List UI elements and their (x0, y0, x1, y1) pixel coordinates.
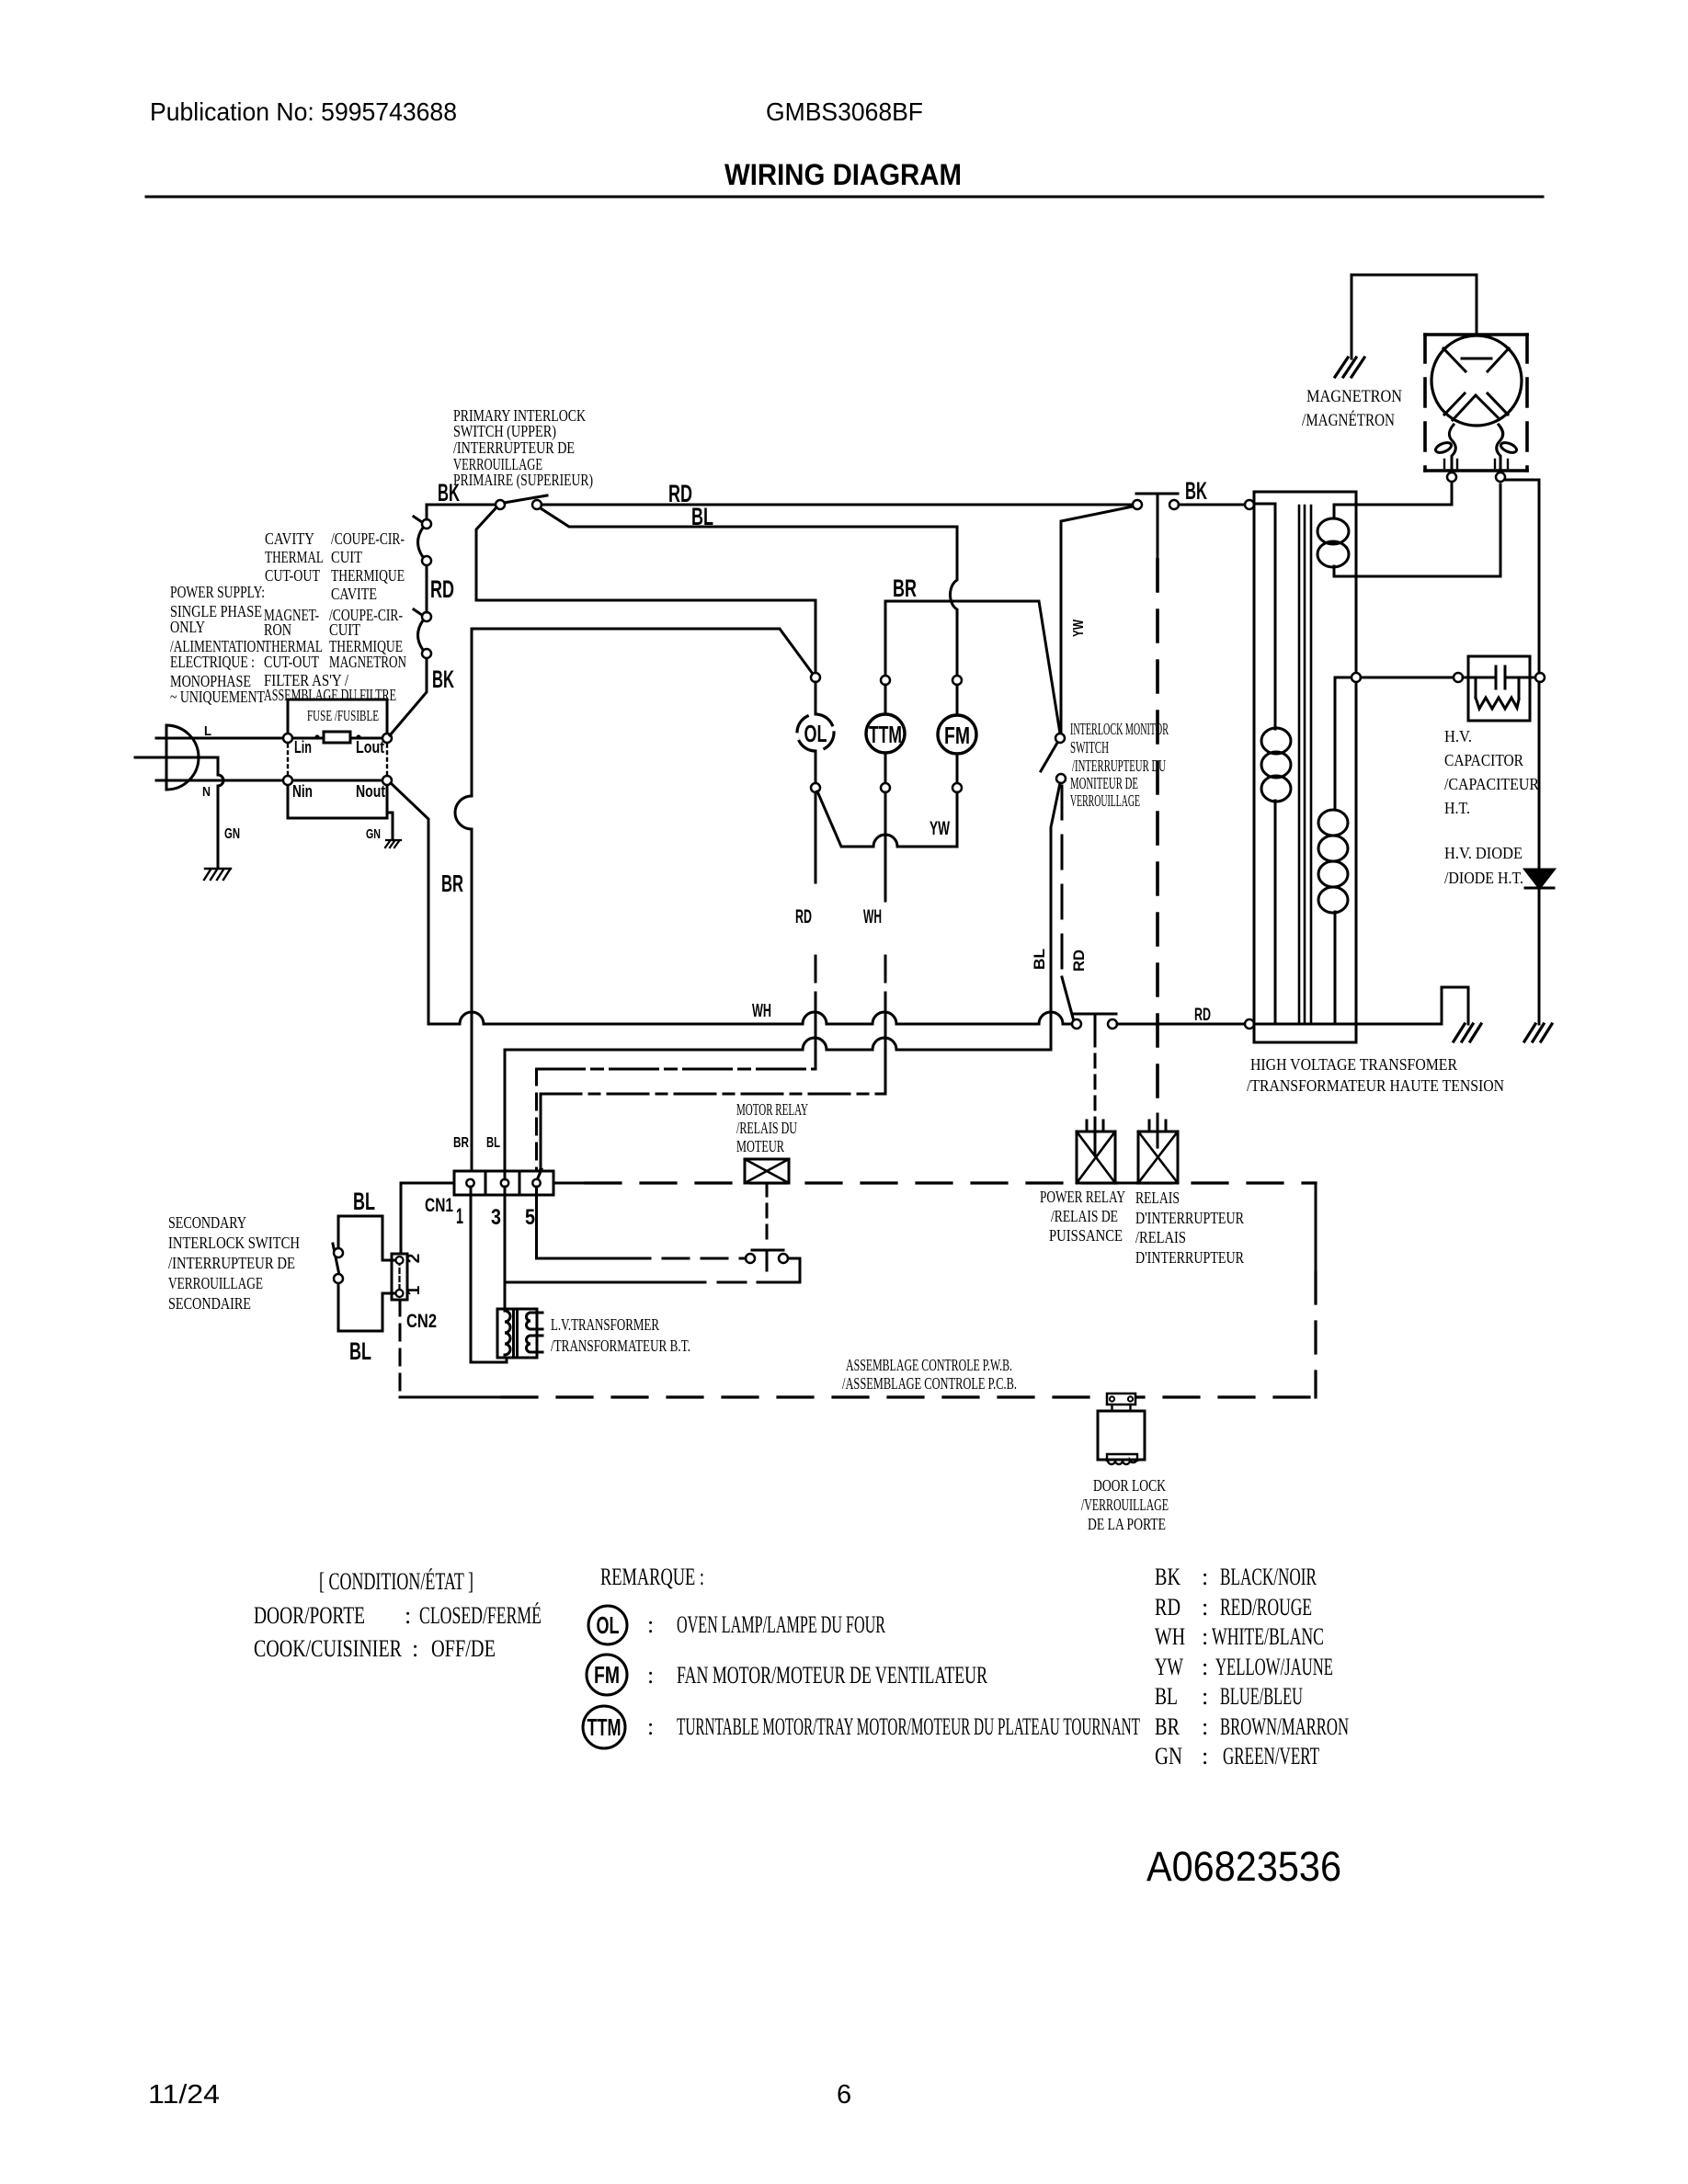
svg-text:WH: WH (1155, 1623, 1185, 1650)
door lock connector (1107, 1393, 1135, 1405)
svg-text:MONITEUR DE: MONITEUR DE (1070, 774, 1138, 792)
LV transformer secondary (527, 1313, 543, 1329)
magnetron filament terminal left (1447, 472, 1456, 482)
CN1 pin 1 (466, 1179, 473, 1187)
svg-text:A06823536: A06823536 (1146, 1843, 1341, 1890)
svg-text:2: 2 (405, 1254, 424, 1264)
svg-text:BL: BL (1155, 1683, 1178, 1710)
svg-text:/INTERRUPTEUR DE: /INTERRUPTEUR DE (453, 438, 575, 457)
svg-text:RON: RON (264, 620, 291, 639)
HV transformer filament winding (1333, 505, 1336, 518)
PWB left edge dashed (399, 1300, 402, 1397)
svg-text:[ CONDITION/ÉTAT ]: [ CONDITION/ÉTAT ] (319, 1568, 473, 1595)
svg-text:POWER SUPPLY:: POWER SUPPLY: (170, 583, 265, 601)
wire BL to relay switch (505, 1258, 800, 1282)
junction filament/cap (1352, 673, 1361, 682)
contact RD (1133, 500, 1142, 509)
wire between cutouts (426, 565, 428, 612)
svg-text:RD: RD (1070, 950, 1088, 972)
ground filter GN (385, 840, 401, 847)
dotted link Lout-Nout (386, 745, 388, 775)
mech link motor relay (766, 1183, 769, 1243)
svg-text:INTERLOCK SWITCH: INTERLOCK SWITCH (168, 1234, 300, 1252)
wire HV diode (1505, 480, 1539, 1024)
svg-text:/TRANSFORMATEUR HAUTE TENSION: /TRANSFORMATEUR HAUTE TENSION (1247, 1076, 1504, 1095)
wire TTM drop (884, 601, 887, 675)
HV capacitor bleeder resistor (1476, 677, 1519, 709)
svg-text:GREEN/VERT: GREEN/VERT (1223, 1743, 1319, 1769)
svg-text:H.V.: H.V. (1444, 727, 1472, 745)
svg-text:BK: BK (1155, 1564, 1180, 1590)
svg-text:VERROUILLAGE: VERROUILLAGE (168, 1274, 263, 1292)
terminal Lin (283, 734, 292, 743)
svg-text::: : (405, 1602, 411, 1629)
svg-text:ASSEMBLAGE CONTROLE P.W.B.: ASSEMBLAGE CONTROLE P.W.B. (846, 1356, 1012, 1374)
ground magnetron (1335, 358, 1364, 377)
svg-text:SECONDAIRE: SECONDAIRE (168, 1294, 251, 1313)
svg-text::: : (1202, 1683, 1208, 1710)
svg-text:/DIODE H.T.: /DIODE H.T. (1444, 869, 1523, 887)
svg-text:GN: GN (366, 826, 381, 842)
wire BL lower run (505, 1049, 1051, 1052)
svg-text:ONLY: ONLY (170, 618, 205, 636)
svg-text::: : (1202, 1564, 1208, 1590)
svg-text:VERROUILLAGE: VERROUILLAGE (1070, 791, 1140, 810)
LV transformer box (497, 1309, 537, 1358)
svg-text::: : (647, 1611, 654, 1638)
svg-text:CAVITE: CAVITE (331, 585, 377, 603)
interrupter relay coil (1138, 1132, 1178, 1183)
wire magnetron anode/ground (1352, 275, 1477, 358)
svg-text:BLUE/BLEU: BLUE/BLEU (1220, 1683, 1303, 1710)
svg-text:D'INTERRUPTEUR: D'INTERRUPTEUR (1135, 1248, 1244, 1267)
wire RD below OL (815, 792, 817, 1069)
svg-text:GMBS3068BF: GMBS3068BF (766, 97, 923, 126)
HV transformer internal RD bus (1254, 1023, 1356, 1026)
svg-text:BL: BL (349, 1337, 371, 1365)
svg-text:BK: BK (438, 479, 460, 506)
svg-text:5: 5 (525, 1205, 535, 1230)
mech link A (537, 1068, 816, 1071)
svg-text:FAN MOTOR/MOTEUR DE VENTILATEU: FAN MOTOR/MOTEUR DE VENTILATEUR (677, 1662, 987, 1689)
wire filament winding to left terminal (1334, 504, 1452, 506)
svg-text:/RELAIS: /RELAIS (1135, 1228, 1186, 1246)
svg-text:CUT-OUT: CUT-OUT (264, 653, 319, 671)
svg-text:DOOR LOCK: DOOR LOCK (1093, 1476, 1166, 1495)
svg-text:GN: GN (224, 826, 240, 842)
svg-text:SWITCH: SWITCH (1070, 738, 1109, 756)
power plug (166, 725, 199, 790)
svg-text:/ASSEMBLAGE CONTROLE P.C.B.: /ASSEMBLAGE CONTROLE P.C.B. (842, 1374, 1017, 1393)
svg-text:TURNTABLE MOTOR/TRAY MOTOR/MOT: TURNTABLE MOTOR/TRAY MOTOR/MOTEUR DU PLA… (677, 1713, 1140, 1740)
svg-text:WH: WH (752, 1001, 771, 1021)
wire RD to oven lamp (476, 507, 815, 672)
wire cavity top to OL (472, 629, 813, 674)
svg-text::: : (1202, 1743, 1208, 1769)
svg-text:CAPACITOR: CAPACITOR (1444, 751, 1523, 769)
HV transformer secondary winding (1335, 677, 1356, 810)
svg-text:YELLOW/JAUNE: YELLOW/JAUNE (1215, 1654, 1333, 1680)
cavity thermal cut-out (418, 528, 424, 557)
PWB top edge left (401, 1183, 454, 1254)
svg-text:BR: BR (893, 574, 917, 602)
HV transformer core (1299, 506, 1311, 1023)
svg-text:FUSE /FUSIBLE: FUSE /FUSIBLE (307, 707, 379, 724)
svg-text:L.V.TRANSFORMER: L.V.TRANSFORMER (551, 1315, 659, 1334)
svg-text:RD: RD (1155, 1594, 1180, 1621)
fan motor FM (952, 676, 962, 685)
svg-text:CN2: CN2 (406, 1311, 437, 1332)
CN1 pin 3 (501, 1179, 508, 1187)
svg-text:CN1: CN1 (425, 1195, 453, 1216)
magnetron thermal cut-out (418, 620, 424, 650)
svg-text:MOTEUR: MOTEUR (736, 1137, 784, 1155)
wire BR from Nout (391, 783, 428, 1024)
svg-text:BROWN/MARRON: BROWN/MARRON (1220, 1713, 1349, 1740)
svg-text:ELECTRIQUE :: ELECTRIQUE : (170, 653, 255, 671)
PWB right edge (1315, 1183, 1317, 1272)
wire BR pin1 to LV transformer (471, 1187, 507, 1362)
wire BK Lout to cutouts (390, 657, 427, 735)
svg-text:RELAIS: RELAIS (1135, 1189, 1180, 1207)
wire Nin-Nout (288, 779, 387, 782)
svg-text:3: 3 (491, 1205, 501, 1230)
wire filament winding to right terminal (1334, 484, 1500, 576)
svg-text:HIGH VOLTAGE TRANSFOMER: HIGH VOLTAGE TRANSFOMER (1250, 1055, 1457, 1074)
door lock body (1098, 1411, 1145, 1460)
monitor switch blade (1041, 743, 1057, 771)
wire junction to capacitor (1361, 677, 1454, 679)
svg-text:WHITE/BLANC: WHITE/BLANC (1212, 1623, 1324, 1650)
turntable motor TTM (881, 676, 890, 685)
svg-text:BR: BR (1155, 1713, 1180, 1740)
LV transformer primary coil (505, 1311, 510, 1355)
svg-text:OVEN LAMP/LAMPE DU FOUR: OVEN LAMP/LAMPE DU FOUR (677, 1611, 885, 1638)
title rule (146, 196, 1543, 199)
wire RD top run (542, 504, 1133, 506)
svg-text:~ UNIQUEMENT: ~ UNIQUEMENT (170, 688, 265, 706)
magnetron electrodes (1443, 348, 1509, 420)
svg-text:DOOR/PORTE: DOOR/PORTE (254, 1602, 365, 1629)
wire BK to transformer (1179, 504, 1245, 506)
CN1 pin5 blade (537, 1169, 542, 1180)
svg-text:BR: BR (441, 870, 463, 897)
svg-text:YW: YW (1155, 1654, 1183, 1680)
svg-text:Nout: Nout (356, 782, 385, 801)
wire WH below TTM (884, 792, 887, 1094)
magnetron filament lead left (1449, 425, 1455, 472)
wire N (156, 779, 285, 782)
svg-text:RD: RD (1194, 1006, 1211, 1025)
svg-text:COOK/CUISINIER: COOK/CUISINIER (254, 1635, 403, 1662)
monitor switch contact top (1055, 734, 1065, 743)
secondary interlock switch (338, 1216, 395, 1331)
svg-text:/INTERRUPTEUR DU: /INTERRUPTEUR DU (1072, 756, 1166, 775)
svg-text:OFF/DE: OFF/DE (431, 1635, 496, 1662)
HV capacitor box (1468, 656, 1530, 721)
svg-text:MAGNETRON: MAGNETRON (329, 653, 406, 671)
HV capacitor terminal left (1454, 673, 1463, 682)
svg-text:RD: RD (795, 906, 812, 927)
HV transformer frame (1254, 492, 1356, 1042)
power relay coil (1077, 1132, 1115, 1183)
terminal Nout (382, 776, 392, 785)
svg-text:1: 1 (456, 1204, 463, 1229)
CN2 pin 1 (396, 1290, 404, 1297)
svg-text:YW: YW (1071, 619, 1087, 637)
svg-text:N: N (202, 784, 211, 800)
svg-text:MAGNETRON: MAGNETRON (1306, 387, 1402, 406)
svg-text:WIRING DIAGRAM: WIRING DIAGRAM (724, 158, 962, 191)
svg-text:RED/ROUGE: RED/ROUGE (1220, 1594, 1312, 1621)
PWB top edge right (553, 1182, 1138, 1185)
monitor switch T contact (1136, 494, 1178, 560)
svg-text:RD: RD (430, 575, 454, 603)
svg-text:CAVITY: CAVITY (265, 529, 314, 548)
svg-text::: : (647, 1713, 654, 1740)
mech link power relay (1094, 1033, 1097, 1121)
svg-text:/RELAIS DU: /RELAIS DU (736, 1119, 797, 1137)
svg-text:BL: BL (1031, 949, 1048, 970)
svg-text:REMARQUE :: REMARQUE : (600, 1564, 704, 1590)
legend TTM (583, 1706, 625, 1748)
svg-text:BR: BR (453, 1135, 469, 1151)
wire BL monitor down (1051, 783, 1060, 1050)
wire L (156, 737, 285, 740)
svg-text::: : (1202, 1594, 1208, 1621)
mech link B (541, 1093, 885, 1096)
wire BR horizontal (885, 601, 1060, 734)
svg-text:Publication No: 5995743688: Publication No: 5995743688 (150, 97, 457, 126)
svg-text:DE LA PORTE: DE LA PORTE (1088, 1515, 1166, 1533)
svg-text:PRIMAIRE (SUPERIEUR): PRIMAIRE (SUPERIEUR) (453, 471, 593, 490)
svg-text:MOTOR RELAY: MOTOR RELAY (736, 1100, 808, 1119)
svg-text:BL: BL (353, 1188, 375, 1215)
wire BK corner (427, 505, 496, 519)
svg-text:Lout: Lout (356, 738, 384, 756)
svg-text:BK: BK (432, 665, 454, 693)
svg-text::: : (412, 1635, 418, 1662)
wire RD dashed monitor (1061, 786, 1064, 977)
svg-text::: : (1202, 1654, 1208, 1680)
ground HV diode (1524, 1024, 1552, 1041)
terminal Nin (283, 776, 292, 785)
svg-text:/INTERRUPTEUR DE: /INTERRUPTEUR DE (168, 1254, 295, 1272)
wire BL drop jog (951, 527, 958, 675)
contact BK (1169, 500, 1179, 509)
svg-text:CUIT: CUIT (329, 620, 360, 639)
svg-text:WH: WH (863, 906, 882, 927)
wire GN hook (387, 813, 393, 839)
wire Lin-Lout (288, 737, 387, 740)
wire WH main run (428, 1023, 1072, 1026)
wire cavity left edge (455, 629, 472, 1179)
motor relay switch T (752, 1250, 783, 1270)
oven lamp OL (811, 673, 820, 682)
svg-text:RD: RD (668, 480, 692, 507)
HV diode (1525, 870, 1554, 888)
wire BL top run (541, 508, 957, 527)
svg-text:Nin: Nin (292, 782, 313, 801)
CN1 pin 5 (532, 1179, 540, 1187)
svg-text:L: L (204, 723, 211, 739)
HV capacitor element (1463, 666, 1535, 688)
svg-text:POWER RELAY: POWER RELAY (1040, 1188, 1125, 1206)
magnetron filament lead right (1497, 425, 1503, 472)
svg-text:FM: FM (594, 1661, 620, 1689)
svg-text:D'INTERRUPTEUR: D'INTERRUPTEUR (1135, 1209, 1244, 1227)
wire transformer ground (1356, 987, 1468, 1024)
svg-text:SECONDARY: SECONDARY (168, 1213, 246, 1232)
svg-text:CLOSED/FERMÉ: CLOSED/FERMÉ (419, 1602, 542, 1629)
svg-text:H.T.: H.T. (1444, 799, 1470, 817)
svg-text:H.V. DIODE: H.V. DIODE (1444, 844, 1523, 862)
svg-text:INTERLOCK MONITOR: INTERLOCK MONITOR (1070, 720, 1169, 738)
svg-text::: : (1202, 1623, 1208, 1650)
ground transformer (1454, 1024, 1481, 1041)
svg-text:11/24: 11/24 (148, 2080, 220, 2110)
svg-text:YW: YW (930, 818, 950, 839)
primary interlock switch (504, 495, 547, 503)
door lock coil (1107, 1454, 1137, 1464)
connector CN1 (454, 1171, 553, 1195)
svg-text:ASSEMBLAGE DU FILTRE: ASSEMBLAGE DU FILTRE (264, 686, 396, 704)
motor relay (745, 1159, 789, 1183)
power cord (135, 757, 223, 868)
svg-text:1: 1 (405, 1285, 424, 1295)
svg-text:/VERROUILLAGE: /VERROUILLAGE (1081, 1496, 1169, 1514)
svg-text:/MAGNÉTRON: /MAGNÉTRON (1302, 410, 1395, 430)
monitor switch contact bottom (1056, 774, 1066, 783)
motor relay switch contacts (746, 1254, 755, 1263)
LV transformer core (512, 1312, 515, 1355)
svg-text:OL: OL (597, 1611, 620, 1639)
svg-text:THERMAL: THERMAL (265, 548, 324, 566)
CN2 pin 2 (396, 1257, 404, 1264)
connector CN2 (392, 1254, 407, 1300)
HV capacitor terminal right (1535, 673, 1545, 682)
filter assy box (288, 700, 387, 818)
svg-text:/CAPACITEUR: /CAPACITEUR (1444, 775, 1539, 793)
svg-text:Lin: Lin (294, 738, 312, 756)
legend FM (587, 1655, 627, 1695)
magnetron antenna (1462, 358, 1491, 360)
HV transformer terminal RD (1245, 1019, 1254, 1029)
svg-text:/COUPE-CIR-: /COUPE-CIR- (331, 529, 405, 548)
svg-text:THERMIQUE: THERMIQUE (331, 566, 405, 585)
svg-text:GN: GN (1155, 1743, 1182, 1769)
svg-text:BL: BL (691, 503, 713, 530)
svg-text::: : (647, 1662, 654, 1689)
svg-text:FM: FM (944, 722, 970, 749)
svg-text:CUT-OUT: CUT-OUT (265, 566, 320, 585)
power relay contact (1072, 1019, 1081, 1029)
fuse F1 (324, 732, 350, 743)
magnetron filament terminal right (1496, 472, 1505, 482)
PWB bottom edge (400, 1396, 502, 1399)
svg-text:CUIT: CUIT (331, 548, 362, 566)
wire YW OL to FM (817, 791, 957, 847)
svg-text:BK: BK (1185, 477, 1207, 505)
magnetron tube (1431, 336, 1522, 426)
svg-text:PUISSANCE: PUISSANCE (1049, 1226, 1123, 1245)
svg-text:6: 6 (837, 2080, 851, 2110)
svg-text:BLACK/NOIR: BLACK/NOIR (1220, 1564, 1317, 1590)
svg-text:OL: OL (804, 720, 827, 747)
wire RD to HV transformer (1117, 1023, 1245, 1026)
HV transformer terminal BK (1245, 500, 1254, 509)
svg-text:/RELAIS DE: /RELAIS DE (1051, 1207, 1118, 1225)
svg-text:TTM: TTM (869, 721, 902, 748)
HV transformer primary winding (1254, 504, 1275, 729)
wire BL pin3 vertical (504, 1050, 507, 1309)
svg-text::: : (1202, 1713, 1208, 1740)
svg-text:BL: BL (486, 1135, 500, 1151)
terminal Lout (382, 734, 392, 743)
door line dashed (1156, 560, 1159, 1114)
interlock monitor switch blade top (1061, 506, 1133, 734)
ground plug GN (204, 869, 231, 880)
svg-text:TTM: TTM (587, 1713, 622, 1741)
magnetron case dashed (1425, 335, 1527, 471)
dotted link Lin-Nin (287, 745, 289, 775)
wire pin5 to motor switch (537, 1187, 625, 1258)
svg-text:/TRANSFORMATEUR B.T.: /TRANSFORMATEUR B.T. (551, 1337, 690, 1355)
legend OL (588, 1606, 627, 1644)
